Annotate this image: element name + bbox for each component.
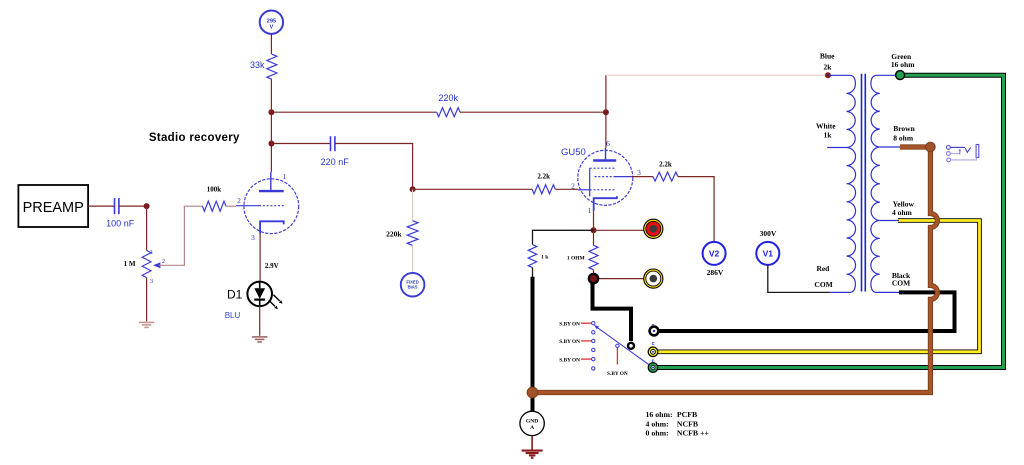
label S.BY ON pivot xyxy=(607,371,628,377)
wire C2 to node E xyxy=(335,144,413,190)
label Black xyxy=(892,271,911,280)
node A junction xyxy=(144,203,150,209)
svg-text:286V: 286V xyxy=(707,268,724,277)
wire node F to 1 OHM xyxy=(593,230,595,245)
node Blue junction xyxy=(825,72,831,78)
svg-text:33k: 33k xyxy=(250,60,265,70)
resistor 220k bias xyxy=(386,221,418,246)
label 16 ohm xyxy=(891,60,915,69)
svg-text:8 ohm: 8 ohm xyxy=(893,133,914,142)
svg-text:295: 295 xyxy=(267,18,276,24)
svg-text:V2: V2 xyxy=(709,249,720,259)
resistor 1 OHM xyxy=(567,245,598,269)
capacitor 100 nF xyxy=(106,198,135,228)
label D1 xyxy=(227,288,243,302)
svg-text:2k: 2k xyxy=(823,63,832,72)
label Red xyxy=(816,264,830,273)
label Stadio recovery xyxy=(149,132,240,144)
connector black C xyxy=(650,327,659,336)
wire 220k bias to FIXED BIAS source xyxy=(412,245,414,273)
wire pot bottom to ground xyxy=(146,278,148,322)
wire PREAMP to C1 xyxy=(88,205,114,207)
connector CN2 white RCA xyxy=(644,269,663,288)
svg-text:2.2k: 2.2k xyxy=(659,160,672,168)
svg-text:PREAMP: PREAMP xyxy=(23,200,84,216)
svg-text:1 M: 1 M xyxy=(124,260,136,268)
svg-text:A: A xyxy=(530,425,534,431)
switch contacts xyxy=(592,322,595,371)
svg-text:BLU: BLU xyxy=(225,311,241,320)
wire U1 plate to node D xyxy=(605,112,607,148)
svg-text:4 ohm:: 4 ohm: xyxy=(646,420,669,429)
svg-text:V: V xyxy=(270,25,274,31)
svg-text:S.BY ON: S.BY ON xyxy=(607,371,628,377)
svg-text:2: 2 xyxy=(571,181,575,190)
svg-text:220k: 220k xyxy=(386,230,402,239)
svg-text:PCFB: PCFB xyxy=(677,410,697,419)
svg-text:Stadio recovery: Stadio recovery xyxy=(149,132,240,144)
svg-text:V1: V1 xyxy=(763,249,774,259)
svg-text:300V: 300V xyxy=(760,229,777,238)
label BLU xyxy=(225,311,241,320)
svg-text:6: 6 xyxy=(606,139,610,148)
wire U1 cathode to node F xyxy=(593,211,595,231)
svg-text:1: 1 xyxy=(588,206,592,215)
triode tube xyxy=(236,172,299,242)
svg-text:D1: D1 xyxy=(227,288,243,302)
label S.BY ON 3 xyxy=(559,357,580,363)
resistor 220k top xyxy=(437,93,460,117)
svg-text:S.BY ON: S.BY ON xyxy=(559,321,580,327)
wire node B to C2 xyxy=(271,143,330,145)
transformer primary winding xyxy=(827,75,855,292)
svg-text:1: 1 xyxy=(150,249,153,256)
transformer secondary winding xyxy=(871,75,900,292)
node brown-gnd junction xyxy=(527,387,538,398)
svg-text:Blue: Blue xyxy=(820,52,835,61)
svg-text:100k: 100k xyxy=(207,185,222,193)
wire V1 to Red COM xyxy=(768,265,829,293)
resistor 2.2k screen xyxy=(653,160,678,181)
source GND A xyxy=(520,411,544,435)
wire S.BY ON pivot stub xyxy=(616,348,618,365)
node D junction xyxy=(603,109,609,115)
wire C1 to node A xyxy=(119,205,147,207)
svg-text:GND: GND xyxy=(526,418,538,424)
meter V1 xyxy=(756,229,779,265)
ground under LED xyxy=(252,337,268,342)
label 1k xyxy=(823,131,832,140)
wire node A to potentiometer xyxy=(146,206,148,250)
svg-text:3: 3 xyxy=(150,278,153,285)
wire 2.2k to U1 grid xyxy=(555,188,578,190)
svg-text:16 ohm:: 16 ohm: xyxy=(646,410,673,419)
svg-text:Brown: Brown xyxy=(893,124,915,133)
wire pot wiper to 100k (rose net) xyxy=(159,206,203,265)
switch pivot contact xyxy=(616,344,619,347)
meter V2 xyxy=(703,242,726,277)
voltage source 295V xyxy=(260,11,283,34)
svg-text:COM: COM xyxy=(892,279,910,288)
svg-text:220k: 220k xyxy=(439,93,459,103)
switch common node xyxy=(628,343,634,349)
svg-text:BIAS: BIAS xyxy=(408,285,418,290)
node E junction xyxy=(410,186,416,192)
label Brown xyxy=(893,124,915,133)
svg-text:S.BY ON: S.BY ON xyxy=(559,339,580,345)
svg-text:Red: Red xyxy=(816,264,830,273)
resistor 33k xyxy=(250,54,277,79)
connector green C xyxy=(648,363,658,373)
wire triode cathode to LED xyxy=(259,234,261,282)
svg-text:2: 2 xyxy=(237,196,241,205)
wire Brown 8 ohm (thick brown) xyxy=(533,147,938,393)
svg-text:NCFB ++: NCFB ++ xyxy=(677,429,710,438)
wire 33k to node C xyxy=(270,79,272,112)
svg-text:3: 3 xyxy=(637,168,641,177)
node F junction xyxy=(591,227,597,233)
svg-text:1 OHM: 1 OHM xyxy=(567,256,586,262)
label Blue xyxy=(820,52,835,61)
svg-text:1k: 1k xyxy=(823,131,832,140)
potentiometer R2 1M xyxy=(124,249,166,285)
svg-text:NCFB: NCFB xyxy=(677,420,698,429)
label c black xyxy=(651,323,654,329)
wire node D to transformer Blue (light net) xyxy=(606,74,828,76)
node G junction xyxy=(589,274,598,283)
resistor 1k xyxy=(528,245,549,268)
wire node G to CN2 xyxy=(594,278,644,280)
svg-text:1: 1 xyxy=(283,172,287,181)
wire Green 16 ohm (thick green) xyxy=(658,75,1004,367)
svg-text:c: c xyxy=(651,341,654,347)
wire node G to switch common (thick) xyxy=(593,278,632,342)
label S.BY ON 1 xyxy=(559,321,580,327)
wire 1 OHM to node G xyxy=(593,270,595,279)
label 8 ohm xyxy=(893,133,914,142)
pentode GU50 xyxy=(571,139,641,215)
transformer core xyxy=(862,74,866,292)
connector CN1 red RCA xyxy=(644,219,663,238)
node B junction xyxy=(268,141,274,147)
wire node C to 220k xyxy=(271,111,436,113)
svg-text:220 nF: 220 nF xyxy=(321,157,350,167)
svg-text:S.BY ON: S.BY ON xyxy=(559,357,580,363)
block PREAMP xyxy=(18,185,88,227)
wire 220k to node D xyxy=(460,111,606,113)
label GU50 xyxy=(561,147,586,158)
note feedback table xyxy=(646,410,710,438)
wire node F to 1k xyxy=(533,230,594,244)
svg-text:4 ohm: 4 ohm xyxy=(892,208,913,217)
svg-text:16 ohm: 16 ohm xyxy=(891,60,915,69)
connector yellow C xyxy=(648,347,658,357)
resistor 100k xyxy=(202,185,226,211)
wire source to 33k xyxy=(270,34,272,54)
ground under potentiometer xyxy=(139,322,155,327)
jack J1 xyxy=(947,145,979,162)
wire node E to 220k bias (light net) xyxy=(412,189,414,220)
svg-text:White: White xyxy=(816,122,836,131)
svg-text:0 ohm:: 0 ohm: xyxy=(646,429,669,438)
svg-text:1 k: 1 k xyxy=(541,254,549,260)
label 4 ohm xyxy=(892,208,913,217)
capacitor 220 nF xyxy=(321,136,350,167)
svg-text:2: 2 xyxy=(162,258,165,265)
wire node D up xyxy=(605,75,607,112)
wire LED to ground xyxy=(259,306,261,336)
svg-text:GU50: GU50 xyxy=(561,147,586,158)
wire Black COM (thick black) xyxy=(659,292,955,331)
label Green xyxy=(891,52,912,61)
label 2.9V xyxy=(265,262,279,270)
wire node F to CN1 xyxy=(594,229,644,231)
resistor 2.2k grid xyxy=(532,172,555,194)
svg-text:100 nF: 100 nF xyxy=(106,218,135,228)
label COM secondary xyxy=(892,279,910,288)
svg-text:3: 3 xyxy=(251,233,255,242)
wire plate to node B xyxy=(270,144,272,172)
wire U1 screen to 2.2k xyxy=(632,176,653,178)
node C junction xyxy=(268,109,274,115)
svg-text:2.9V: 2.9V xyxy=(265,262,279,270)
ground A symbol xyxy=(522,451,543,458)
wire Yellow 4 ohm (thick yellow) xyxy=(658,221,980,352)
label c green xyxy=(651,358,654,364)
label Yellow xyxy=(893,200,915,209)
label White xyxy=(816,122,836,131)
label COM primary xyxy=(814,280,832,289)
label S.BY ON 2 xyxy=(559,339,580,345)
label 2k xyxy=(823,63,832,72)
wire GND A to ground xyxy=(531,436,533,450)
label c yellow xyxy=(651,341,654,347)
wire 1k to GND A (thick) xyxy=(531,277,535,412)
wire node C to node B xyxy=(270,112,272,143)
wire 2.2k screen to V2 xyxy=(678,177,714,242)
source FIXED BIAS xyxy=(401,273,425,297)
svg-text:2.2k: 2.2k xyxy=(537,172,550,180)
terminal Green 16 ohm xyxy=(896,71,905,80)
wire switch stubs S.BY ON xyxy=(581,323,592,359)
LED D1 xyxy=(247,282,282,310)
wire 1k to thick black xyxy=(532,268,534,278)
node Brown 8 ohm terminal xyxy=(926,142,936,152)
wire 100k to V1 grid xyxy=(226,205,236,207)
switch arm xyxy=(594,325,653,367)
svg-text:COM: COM xyxy=(814,280,832,289)
wire node E to 2.2k grid xyxy=(413,188,532,190)
